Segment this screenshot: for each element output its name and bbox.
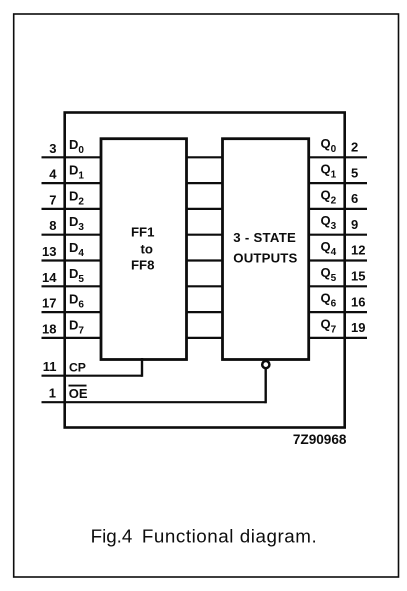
wire FF-to-3STATE interconnect 7 bbox=[187, 311, 223, 313]
wire FF-to-3STATE interconnect 8 bbox=[187, 337, 223, 339]
svg-text:7Z90968: 7Z90968 bbox=[293, 432, 347, 447]
svg-text:OUTPUTS: OUTPUTS bbox=[233, 251, 297, 266]
wire OE riser to output-enable bubble bbox=[265, 368, 267, 403]
svg-text:1: 1 bbox=[49, 386, 56, 401]
svg-text:7: 7 bbox=[49, 192, 56, 207]
wire D0 lead (pin 3) bbox=[42, 156, 102, 158]
wire FF-to-3STATE interconnect 6 bbox=[187, 285, 223, 287]
svg-text:18: 18 bbox=[42, 321, 56, 336]
svg-text:Q3: Q3 bbox=[321, 213, 337, 232]
svg-text:12: 12 bbox=[351, 243, 365, 258]
svg-text:D0: D0 bbox=[69, 137, 84, 156]
svg-text:15: 15 bbox=[351, 269, 365, 284]
svg-text:19: 19 bbox=[351, 320, 365, 335]
svg-text:D6: D6 bbox=[69, 292, 84, 311]
block FF1 to FF8 bbox=[101, 139, 187, 360]
svg-text:Q2: Q2 bbox=[321, 187, 337, 206]
svg-text:8: 8 bbox=[49, 218, 56, 233]
wire D5 lead (pin 14) bbox=[42, 285, 102, 287]
wire Q2 lead (pin 6) bbox=[309, 208, 367, 210]
svg-text:5: 5 bbox=[351, 165, 358, 180]
wire Q3 lead (pin 9) bbox=[309, 234, 367, 236]
wire Q5 lead (pin 15) bbox=[309, 285, 367, 287]
svg-text:Q4: Q4 bbox=[321, 239, 337, 258]
svg-text:Q0: Q0 bbox=[321, 136, 337, 155]
svg-text:3: 3 bbox=[49, 141, 56, 156]
wire Q4 lead (pin 12) bbox=[309, 259, 367, 261]
wire FF-to-3STATE interconnect 1 bbox=[187, 156, 223, 158]
svg-text:6: 6 bbox=[351, 191, 358, 206]
wire FF-to-3STATE interconnect 3 bbox=[187, 208, 223, 210]
svg-text:Q1: Q1 bbox=[321, 162, 337, 181]
inversion bubble on 3-STATE OUTPUTS enable bbox=[262, 361, 269, 368]
svg-text:13: 13 bbox=[42, 244, 56, 259]
wire D2 lead (pin 7) bbox=[42, 208, 102, 210]
svg-text:FF1: FF1 bbox=[131, 224, 154, 239]
wire FF-to-3STATE interconnect 5 bbox=[187, 259, 223, 261]
svg-text:OE: OE bbox=[69, 386, 88, 401]
wire D1 lead (pin 4) bbox=[42, 182, 102, 184]
svg-text:16: 16 bbox=[351, 294, 365, 309]
svg-text:D5: D5 bbox=[69, 266, 84, 285]
svg-text:3 - STATE: 3 - STATE bbox=[233, 230, 296, 245]
svg-text:Fig.4Functional diagram.: Fig.4Functional diagram. bbox=[91, 526, 318, 547]
svg-text:D1: D1 bbox=[69, 163, 84, 182]
svg-text:D3: D3 bbox=[69, 214, 84, 233]
svg-text:9: 9 bbox=[351, 217, 358, 232]
svg-text:Q6: Q6 bbox=[321, 291, 337, 310]
wire CP lead (pin 11) bbox=[42, 375, 143, 377]
wire Q1 lead (pin 5) bbox=[309, 182, 367, 184]
svg-text:Q7: Q7 bbox=[321, 316, 337, 335]
wire D6 lead (pin 17) bbox=[42, 311, 102, 313]
wire CP riser to FF block bbox=[141, 358, 143, 377]
svg-text:11: 11 bbox=[43, 359, 57, 374]
svg-text:FF8: FF8 bbox=[131, 258, 154, 273]
block 3-STATE OUTPUTS bbox=[223, 139, 309, 360]
wire OE lead (pin 1) bbox=[42, 401, 266, 403]
wire Q6 lead (pin 16) bbox=[309, 311, 367, 313]
wire FF-to-3STATE interconnect 2 bbox=[187, 182, 223, 184]
svg-text:CP: CP bbox=[69, 361, 86, 375]
svg-text:4: 4 bbox=[49, 167, 57, 182]
svg-text:2: 2 bbox=[351, 140, 358, 155]
wire D3 lead (pin 8) bbox=[42, 234, 102, 236]
svg-text:14: 14 bbox=[42, 270, 57, 285]
wire Q0 lead (pin 2) bbox=[309, 156, 367, 158]
wire Q7 lead (pin 19) bbox=[309, 337, 367, 339]
wire D7 lead (pin 18) bbox=[42, 337, 102, 339]
overline of OE bbox=[69, 385, 87, 387]
svg-text:17: 17 bbox=[42, 296, 56, 311]
svg-text:D4: D4 bbox=[69, 240, 84, 259]
svg-text:D7: D7 bbox=[69, 317, 84, 336]
svg-text:Q5: Q5 bbox=[321, 265, 337, 284]
wire D4 lead (pin 13) bbox=[42, 259, 102, 261]
svg-text:D2: D2 bbox=[69, 188, 84, 207]
wire FF-to-3STATE interconnect 4 bbox=[187, 234, 223, 236]
svg-text:to: to bbox=[141, 241, 153, 256]
outer functional-diagram box bbox=[65, 113, 345, 428]
